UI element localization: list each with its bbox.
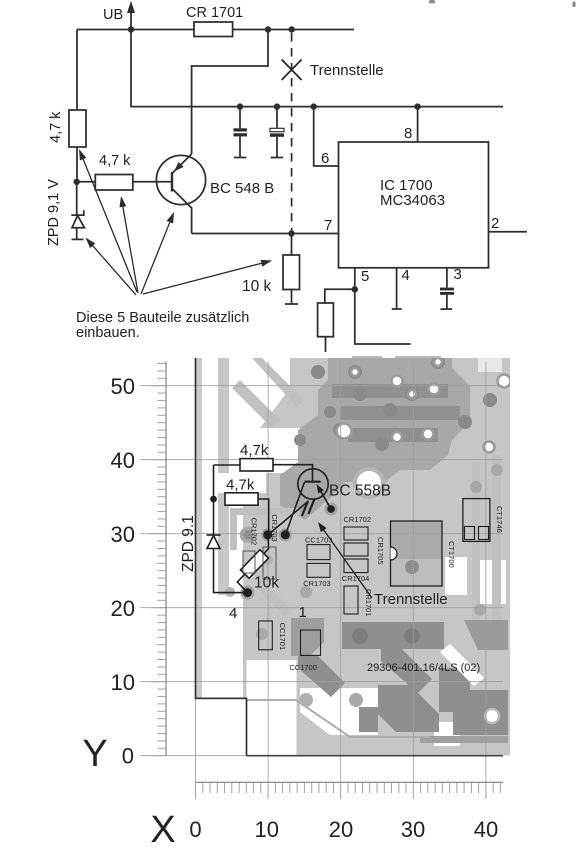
- annotation arrow to 10k: [143, 262, 266, 294]
- grid lines: [140, 362, 503, 783]
- copper blob bottom B: [342, 622, 444, 649]
- copper blob bottom right B: [453, 690, 508, 735]
- copper IC interior bottom: [391, 559, 442, 586]
- zener cathode bar: [71, 210, 84, 215]
- resistor R 4,7k horizontal: [95, 175, 133, 191]
- svg-text:BC 548 B: BC 548 B: [210, 180, 274, 197]
- svg-text:CR1701: CR1701: [364, 589, 373, 617]
- copper IC interior top: [391, 521, 442, 559]
- white pocket left column: [202, 358, 218, 698]
- node rail2 cap2: [274, 103, 280, 109]
- board outline bottom: [247, 755, 504, 757]
- arrowhead 4: [86, 238, 96, 249]
- pad under dot1: [261, 528, 274, 541]
- board outline: [196, 358, 247, 756]
- footprint rect left of 10k: [243, 551, 255, 573]
- component CR1704 rect: [344, 559, 368, 573]
- transistor emitter diagonal: [172, 189, 192, 234]
- thin trace outline bottom: [247, 700, 431, 737]
- zener ZPD 9,1V wire: [76, 182, 78, 215]
- arrowhead emitter (pcb): [317, 484, 324, 493]
- svg-text:1: 1: [299, 604, 307, 621]
- white pocket top left corner: [244, 358, 290, 428]
- svg-text:ZPD 9.1: ZPD 9.1: [180, 515, 197, 572]
- copper trace left edge: [196, 358, 202, 698]
- gridline Y=0: [140, 755, 503, 757]
- svg-text:Diese 5 Bauteile zusätzlich: Diese 5 Bauteile zusätzlich: [76, 310, 249, 326]
- svg-text:CT1700: CT1700: [447, 541, 456, 568]
- gap hash marks: [302, 501, 308, 516]
- node rail2 cap1: [237, 103, 243, 109]
- node rail1 collector feed: [265, 26, 271, 32]
- wire pin3: [446, 268, 448, 288]
- CT1746 inner right: [479, 527, 489, 540]
- node left rail dot: [210, 496, 217, 503]
- wire pin8: [417, 107, 419, 142]
- wire pin6: [314, 107, 339, 166]
- big white pad right of transistor: [355, 469, 383, 497]
- capacitor C1 plates: [234, 128, 248, 136]
- svg-text:CR1704: CR1704: [342, 574, 370, 583]
- zener ZPD 9.1 (pcb) bar: [207, 534, 221, 536]
- arrowhead 3: [167, 212, 174, 224]
- left rail vertical: [213, 465, 215, 535]
- component CR1701 rect: [344, 586, 358, 614]
- svg-text:4,7 k: 4,7 k: [99, 153, 131, 169]
- annotation arrow to vertical 4,7k: [82, 155, 138, 292]
- white pocket bottom small: [434, 722, 460, 746]
- capacitor C1 top wire: [239, 107, 241, 129]
- svg-text:CC1701: CC1701: [278, 623, 287, 651]
- svg-text:Trennstelle: Trennstelle: [310, 62, 384, 79]
- resistor 10k tilted (pcb): [240, 550, 268, 578]
- svg-text:BC 558B: BC 558B: [329, 483, 391, 500]
- svg-text:0: 0: [122, 744, 134, 769]
- arrowhead 2: [120, 196, 127, 207]
- component CC1703 rect: [307, 545, 330, 560]
- node base junction: [74, 179, 80, 185]
- copper diag trace top left A: [252, 358, 304, 407]
- left rail lower: [214, 549, 248, 593]
- gridline X=40: [485, 362, 487, 783]
- white hole bottom right: [485, 709, 499, 723]
- IC U1 MC34063 box: [339, 142, 489, 268]
- copper blob bottom small: [359, 707, 378, 732]
- node emitter dot: [327, 505, 335, 513]
- svg-text:CR1703: CR1703: [270, 514, 279, 542]
- IC chip outline (pcb): [391, 521, 443, 586]
- transistor BC558B circle (pcb): [298, 469, 328, 499]
- copper L trace mid left: [230, 508, 300, 550]
- svg-text:4: 4: [229, 605, 237, 622]
- resistor 4,7k second (pcb): [225, 493, 258, 505]
- wire left drop to R 4,7k: [76, 30, 78, 111]
- svg-text:X: X: [150, 809, 175, 851]
- node UB junction: [128, 26, 134, 32]
- pcb scan top edge marks: [352, 356, 441, 359]
- white pocket right of IC: [445, 557, 467, 595]
- axis X tick strip: [196, 782, 504, 799]
- wire top rail UB: [77, 29, 354, 31]
- pin4 end bar: [392, 308, 402, 310]
- zener end bar: [72, 238, 84, 240]
- wire second 4,7k right: [258, 499, 269, 535]
- node dot2: [281, 530, 290, 539]
- pcb overlay schematic: [207, 459, 490, 656]
- pad under dot2: [279, 528, 292, 541]
- svg-text:4,7k: 4,7k: [226, 477, 255, 494]
- pad under corner dot: [241, 586, 255, 600]
- svg-text:CR1705: CR1705: [376, 537, 385, 565]
- copper blob bottom big: [378, 685, 439, 732]
- svg-text:4,7k: 4,7k: [240, 442, 269, 459]
- pad ring CR1702 left: [240, 527, 256, 543]
- arrowhead 5: [261, 260, 273, 267]
- node pin5 junction: [352, 286, 358, 292]
- svg-text:8: 8: [404, 125, 412, 142]
- pcb small labels: [250, 506, 505, 672]
- node rail1 trennstelle: [289, 26, 295, 32]
- transistor Q1 BC548B circle: [156, 155, 205, 204]
- svg-text:10k: 10k: [254, 575, 279, 592]
- copper light field top: [244, 358, 510, 478]
- transistor lead to dot1: [268, 501, 309, 535]
- capacitor C2 top wire: [276, 107, 278, 129]
- white diag gap bottom right: [440, 644, 484, 686]
- annotation arrow to zener: [90, 243, 136, 296]
- resistor 4,7k top (pcb): [240, 459, 273, 471]
- gridline Y=50: [140, 385, 503, 387]
- svg-text:29306-401.16/4LS (02): 29306-401.16/4LS (02): [367, 662, 480, 674]
- copper blob right edge top: [464, 620, 508, 650]
- resistor CR1701: [194, 22, 233, 37]
- component CC1701 rect: [259, 621, 273, 650]
- zener lower wire: [76, 228, 78, 240]
- wire pin4: [396, 268, 398, 309]
- svg-text:ZPD 9,1 V: ZPD 9,1 V: [46, 179, 62, 246]
- gridline X=0: [195, 362, 197, 783]
- white pocket bottom mid: [300, 688, 378, 735]
- component CR1702 rect: [344, 527, 368, 540]
- svg-text:20: 20: [111, 596, 135, 621]
- copper stripe 3 in blob: [348, 428, 438, 442]
- wire 10k zigzag: [237, 535, 268, 593]
- wire collector feed: [192, 30, 268, 155]
- white pocket diode area: [229, 497, 243, 605]
- capacitor C2 end bar: [271, 157, 284, 159]
- svg-text:40: 40: [111, 448, 135, 473]
- axis Y tick strip: [151, 362, 167, 756]
- copper blob diag arm: [298, 656, 345, 697]
- wire base left: [77, 181, 96, 183]
- component CR1703 rect: [307, 563, 330, 577]
- svg-text:30: 30: [401, 817, 425, 842]
- emitter arrow line (pcb): [319, 489, 331, 509]
- svg-text:3: 3: [454, 266, 462, 283]
- resistor R 4,7k vertical: [69, 110, 86, 147]
- node rail2 pin6: [311, 103, 317, 109]
- gridline X=20: [340, 362, 342, 783]
- svg-text:CC1703: CC1703: [305, 536, 333, 545]
- svg-text:Y: Y: [82, 733, 107, 775]
- wire emitter rail pin7: [192, 233, 339, 235]
- gridline Y=40: [140, 459, 503, 461]
- pcb big labels: [180, 442, 480, 674]
- svg-text:2: 2: [491, 215, 499, 232]
- wire UB stem: [130, 8, 132, 29]
- arrowhead trennstelle (pcb): [318, 522, 327, 532]
- capacitor C1 end bar: [234, 157, 247, 159]
- wire UB drop: [131, 30, 503, 107]
- white pocket right column: [480, 560, 506, 604]
- svg-text:50: 50: [111, 374, 135, 399]
- white pocket below left: [247, 660, 297, 756]
- node trennstelle bottom: [288, 230, 294, 236]
- capacitor C2 bottom wire: [276, 137, 278, 157]
- trennstelle arrow line (pcb): [322, 527, 373, 598]
- wire below R4,7k: [76, 147, 78, 182]
- pads misc row: [300, 586, 312, 598]
- pcb overlay dots: [243, 484, 335, 597]
- svg-text:30: 30: [111, 522, 135, 547]
- gridline X=10: [267, 362, 269, 783]
- svg-text:CR1702: CR1702: [250, 518, 259, 546]
- svg-text:5: 5: [361, 268, 369, 285]
- white pocket label 4,7k second: [216, 473, 266, 493]
- wire below pin5 resistor: [325, 337, 327, 352]
- svg-text:6: 6: [321, 150, 329, 167]
- copper stripe 1 in blob: [332, 384, 448, 398]
- CT1746 inner left: [465, 527, 475, 540]
- white pocket top right corner: [478, 358, 502, 372]
- IC notch: [391, 547, 398, 560]
- wire pin5: [354, 268, 356, 290]
- pad holes white in blob: [337, 358, 511, 453]
- gridline Y=10: [140, 681, 503, 683]
- transistor lead to dot2: [286, 482, 305, 534]
- wire pin5 down branch: [355, 289, 411, 344]
- wire top 4,7k to transistor: [273, 465, 313, 482]
- component CR1705 rect: [344, 543, 368, 556]
- copper pour big top blob: [280, 358, 470, 520]
- copper trace diag near 10k: [255, 580, 292, 617]
- arrowhead 1: [79, 149, 86, 161]
- gridline Y=20: [140, 607, 503, 609]
- svg-text:CR1703: CR1703: [303, 579, 331, 588]
- copper diag trace top left B: [232, 380, 280, 428]
- pad inside IC: [405, 560, 419, 574]
- svg-text:4,7 k: 4,7 k: [48, 111, 64, 143]
- transistor base bar (pcb): [305, 481, 321, 483]
- copper band above Y0: [420, 736, 508, 743]
- zener ZPD 9.1 (pcb) triangle: [207, 536, 220, 549]
- pad rings dark in blob: [294, 355, 497, 451]
- svg-text:Trennstelle: Trennstelle: [374, 591, 448, 608]
- capacitor C2 plates: [270, 128, 284, 136]
- trennstelle X mark: [282, 60, 302, 81]
- capacitor C3 plates: [440, 288, 454, 295]
- svg-text:7: 7: [324, 217, 332, 234]
- trennstelle dashed line: [291, 33, 293, 234]
- transistor collector diagonal: [172, 154, 192, 174]
- node corner dot: [243, 588, 252, 597]
- resistor R pin5: [318, 303, 334, 337]
- svg-text:10: 10: [254, 817, 278, 842]
- transistor base bar: [171, 172, 173, 192]
- annotation arrow to transistor: [141, 218, 172, 294]
- svg-text:CR1702: CR1702: [344, 515, 372, 524]
- white pocket label 4,7k top: [230, 428, 302, 473]
- component CC1700 rect: [301, 630, 321, 655]
- gridline X=30: [412, 362, 414, 783]
- wire top 4,7k left corner: [214, 464, 241, 466]
- wire base to transistor: [133, 181, 172, 183]
- dark pads on blob B: [352, 628, 368, 644]
- annotation arrow to horizontal 4,7k: [122, 203, 138, 294]
- pads right column: [470, 481, 482, 493]
- svg-text:einbauen.: einbauen.: [76, 325, 140, 341]
- pad under emitter dot: [325, 503, 338, 516]
- node dot1: [263, 530, 272, 539]
- copper blob diag arm 2: [381, 647, 432, 693]
- component CT1746 rect: [463, 499, 490, 542]
- copper trace vertical left: [218, 358, 229, 595]
- copper light field bottom: [243, 628, 510, 756]
- svg-text:CC1700: CC1700: [289, 663, 317, 672]
- svg-text:UB: UB: [103, 7, 123, 23]
- wire pin2: [489, 231, 528, 233]
- svg-text:40: 40: [474, 817, 498, 842]
- UB arrowhead: [127, 1, 135, 13]
- wire pin5 left branch: [325, 289, 355, 303]
- capacitor C1 bottom wire: [239, 136, 241, 157]
- transistor collector arrowhead: [174, 162, 184, 172]
- svg-text:10 k: 10 k: [242, 278, 272, 295]
- svg-text:CT1746: CT1746: [495, 506, 504, 533]
- svg-text:10: 10: [111, 670, 135, 695]
- node rail2 pin8: [414, 103, 420, 109]
- copper stripe 2 in blob: [340, 406, 460, 420]
- axis labels: [82, 374, 498, 851]
- zener triangle: [72, 216, 84, 228]
- gridline Y=30: [140, 533, 503, 535]
- svg-text:4: 4: [402, 267, 410, 284]
- capacitor C3 bottom wire: [446, 295, 448, 309]
- svg-text:0: 0: [189, 817, 201, 842]
- footprint rect right of 10k: [263, 547, 276, 579]
- capacitor C3 end bar: [441, 308, 453, 310]
- svg-text:CR 1701: CR 1701: [186, 5, 243, 21]
- copper light field mid: [243, 478, 510, 628]
- pcb copper texture: [196, 355, 511, 756]
- top page text fragment: [429, 0, 576, 7]
- svg-text:20: 20: [329, 817, 353, 842]
- copper blob bottom right A: [439, 668, 470, 712]
- svg-text:MC34063: MC34063: [380, 192, 445, 209]
- copper vertical traces right: [472, 462, 480, 620]
- resistor R 10k: [291, 234, 293, 256]
- copper blob bottom A: [291, 618, 324, 656]
